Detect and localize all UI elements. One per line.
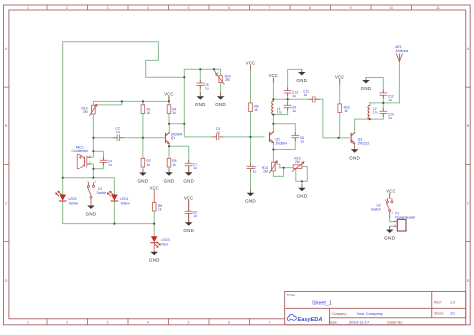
node Q2 base R8 C7 <box>249 136 251 138</box>
capacitor C10 <box>380 108 387 116</box>
svg-text:7: 7 <box>269 6 271 10</box>
svg-text:4: 4 <box>147 6 149 10</box>
resistor R14 body <box>219 76 222 83</box>
resistor R14 wiper arrow <box>214 70 224 85</box>
node LED2 top <box>62 177 64 179</box>
wire mic pin2 down <box>87 164 93 178</box>
wire R4 stems <box>168 101 170 123</box>
border column numbers bottom <box>27 321 271 325</box>
svg-text:7: 7 <box>269 321 271 325</box>
wire led bus bottom <box>63 223 155 225</box>
resistor R5 body <box>167 158 171 167</box>
svg-text:Sheet_1: Sheet_1 <box>312 301 332 307</box>
svg-text:1k: 1k <box>147 163 151 167</box>
svg-text:PowerHeader: PowerHeader <box>395 215 416 219</box>
LED2 <box>56 191 66 201</box>
node staircase-bus junction <box>183 76 185 78</box>
capacitor C11 <box>309 96 319 102</box>
svg-text:1m: 1m <box>373 111 378 115</box>
border ticks right <box>466 87 471 241</box>
svg-text:VCC: VCC <box>269 73 278 78</box>
antenna AE1 <box>396 54 402 62</box>
transistor Q2 <box>270 132 274 143</box>
wire tank2 top gnd link <box>366 78 383 93</box>
wire R5 stems <box>168 146 170 172</box>
wire R16 bottom <box>339 113 341 138</box>
svg-text:VCC: VCC <box>386 188 395 193</box>
vcc stem Q1 <box>168 97 170 102</box>
svg-text:2M: 2M <box>83 110 88 114</box>
border ticks bottom <box>47 319 250 325</box>
LED1 <box>107 191 117 201</box>
wire R10 top stem <box>92 101 94 105</box>
wire C5 stem <box>199 69 201 83</box>
svg-text:VCC: VCC <box>149 185 158 190</box>
node C5 tap <box>199 68 201 70</box>
wire U2 P1 link <box>390 217 394 222</box>
svg-text:LED3: LED3 <box>162 238 170 242</box>
gnd red pin stubs <box>143 70 390 252</box>
svg-text:GND: GND <box>183 228 194 233</box>
wire C4 loop <box>93 151 103 169</box>
svg-text:9: 9 <box>350 6 352 10</box>
wire Q2 emitter vert <box>272 143 274 150</box>
svg-text:2019-11-17: 2019-11-17 <box>349 319 370 324</box>
svg-text:GND: GND <box>245 199 256 204</box>
vcc stem R16 <box>339 79 341 84</box>
svg-text:2: 2 <box>66 321 68 325</box>
svg-text:1m: 1m <box>277 111 282 115</box>
gnd Q3 <box>351 149 359 152</box>
node L1 bottom <box>272 114 274 116</box>
transistor Q3 <box>351 133 355 144</box>
svg-text:6: 6 <box>228 6 230 10</box>
svg-text:11: 11 <box>436 6 440 10</box>
vcc stem U2 <box>389 193 391 198</box>
svg-text:Condenser: Condenser <box>72 149 89 153</box>
border column numbers top <box>27 6 440 10</box>
capacitor C6 <box>185 211 192 213</box>
gnd U1 <box>87 206 95 209</box>
capacitor C7 <box>247 163 254 171</box>
svg-text:TITLE:: TITLE: <box>287 293 296 297</box>
wire emitter bus to C1 <box>169 146 189 163</box>
svg-text:Switch: Switch <box>97 191 107 195</box>
gnd tank2 <box>362 80 370 83</box>
EasyEDA logo <box>287 315 322 323</box>
gnd U2 <box>386 230 394 233</box>
svg-text:1: 1 <box>27 321 29 325</box>
resistor R19 body <box>293 165 302 169</box>
gnd C5 <box>197 96 205 100</box>
wire Q1 collector vert <box>168 124 170 133</box>
microphone MIC1 <box>77 154 90 169</box>
svg-text:Company:: Company: <box>332 312 348 316</box>
svg-text:1k: 1k <box>172 111 176 115</box>
svg-text:VCC: VCC <box>246 61 255 66</box>
svg-text:5: 5 <box>188 321 190 325</box>
svg-text:1u: 1u <box>253 169 257 173</box>
title block box <box>285 292 466 325</box>
svg-text:GND: GND <box>149 257 160 262</box>
svg-text:4: 4 <box>147 321 149 325</box>
capacitor C8 <box>292 132 299 140</box>
header P1 pins <box>394 222 398 227</box>
capacitor C13 <box>284 88 291 96</box>
svg-text:2M: 2M <box>263 170 268 174</box>
node R14 wiper tap <box>213 68 215 70</box>
svg-text:1k: 1k <box>254 108 258 112</box>
svg-text:6: 6 <box>228 321 230 325</box>
node R13-R19 link <box>283 167 285 169</box>
svg-text:C: C <box>467 202 470 206</box>
svg-text:2N3904: 2N3904 <box>276 141 288 145</box>
wire VCC Q1 stem <box>168 97 170 102</box>
svg-text:3: 3 <box>107 6 109 10</box>
wire C11 feed <box>288 99 349 138</box>
gnd LED3 <box>150 252 158 255</box>
svg-text:1u: 1u <box>292 94 296 98</box>
svg-text:1k: 1k <box>147 111 151 115</box>
wire Q3 collector vert <box>354 119 356 133</box>
wire tank vcc drop <box>272 79 274 101</box>
node Q2 emitter <box>272 148 274 150</box>
wire C1 gnd stem <box>188 166 190 172</box>
svg-text:Yellow: Yellow <box>69 202 79 206</box>
node R10 wiper tap <box>121 100 123 102</box>
gnd C1 <box>185 172 193 175</box>
resistor R2 body <box>141 158 145 167</box>
vcc stem R8 <box>250 65 252 70</box>
capacitor C5 <box>197 80 204 88</box>
svg-text:10: 10 <box>389 6 393 10</box>
svg-text:1u: 1u <box>292 109 296 113</box>
svg-text:Switch: Switch <box>371 208 381 212</box>
wire C13-C9 link <box>287 94 289 106</box>
wire Q1 emitter vert <box>168 144 170 147</box>
wire C13 branch <box>273 98 287 100</box>
wire R16 vcc stem <box>339 80 341 104</box>
svg-text:1u: 1u <box>193 166 197 170</box>
wire C10 stems <box>382 103 384 119</box>
svg-text:1u: 1u <box>193 214 197 218</box>
svg-text:1u: 1u <box>205 87 209 91</box>
wire C2 node <box>93 137 164 139</box>
capacitor C4 <box>100 157 107 165</box>
svg-text:2M: 2M <box>295 160 300 164</box>
wire Q2 emitter to R13 <box>272 150 274 163</box>
gnd R19 <box>298 188 306 191</box>
wire mic amp vcc bus <box>93 100 169 102</box>
vcc stems <box>154 65 390 204</box>
wire antenna riser <box>398 62 400 103</box>
wire staircase top-left <box>63 42 185 178</box>
gnd R2 <box>139 173 147 176</box>
node Q2 collector <box>272 123 274 125</box>
wire R6 stems <box>153 211 155 224</box>
capacitor C12 <box>380 90 387 98</box>
svg-text:Sheet:: Sheet: <box>434 312 444 316</box>
svg-text:1u: 1u <box>116 130 120 134</box>
svg-text:GND: GND <box>297 194 308 199</box>
svg-text:Antenna: Antenna <box>396 49 409 53</box>
inductor L1 <box>272 101 274 115</box>
wire C8 loop <box>273 124 295 150</box>
svg-text:1u: 1u <box>216 130 220 134</box>
inductor L2 <box>368 105 370 119</box>
svg-text:VCC: VCC <box>335 75 344 80</box>
wire tank2 bottom bar <box>355 118 384 120</box>
wire L2 top stem <box>369 103 371 105</box>
svg-text:EasyEDA: EasyEDA <box>298 317 323 323</box>
wire Q1 collector to x184 <box>169 123 184 125</box>
svg-text:GND: GND <box>296 78 307 83</box>
svg-text:D: D <box>5 279 8 283</box>
node R1 top <box>142 100 144 102</box>
gnd C13 <box>298 72 306 75</box>
wire R19 loop <box>296 167 308 182</box>
resistor R6 body <box>152 202 156 211</box>
gnd vcc labels <box>86 61 396 263</box>
wire R10 bottom to mic node <box>87 114 93 157</box>
resistor R16 body <box>338 104 342 113</box>
wire LED1 bottom <box>113 202 115 224</box>
node R6 LED3 <box>153 223 155 225</box>
svg-text:1k: 1k <box>158 207 162 211</box>
svg-text:Red: Red <box>162 243 168 247</box>
vcc stem tank1 <box>272 78 274 83</box>
svg-text:Q1: Q1 <box>171 136 176 140</box>
border row letters <box>5 47 470 283</box>
wire C5 gnd stem <box>199 86 201 96</box>
resistor R10 body <box>92 105 96 114</box>
wire R2 stems <box>142 138 144 173</box>
svg-text:1: 1 <box>27 6 29 10</box>
capacitor C2 <box>113 135 123 141</box>
svg-text:LED2: LED2 <box>69 197 77 201</box>
wire R8 bottom <box>250 112 252 137</box>
svg-text:1/1: 1/1 <box>450 312 455 316</box>
wire R10 wiper loop <box>97 101 122 105</box>
svg-text:C: C <box>5 202 8 206</box>
wire LED2 top <box>62 178 64 195</box>
svg-text:2M: 2M <box>225 78 230 82</box>
svg-text:GND: GND <box>215 102 226 107</box>
svg-text:Drawn By:: Drawn By: <box>387 320 403 324</box>
wire C13 top to gnd <box>288 69 302 90</box>
switch U2 <box>386 193 393 217</box>
wire R8 vcc drop <box>250 66 252 103</box>
svg-text:D: D <box>467 279 470 283</box>
svg-text:8: 8 <box>309 6 311 10</box>
wire L1 bottom bar <box>273 114 287 116</box>
node Q1 collector <box>168 123 170 125</box>
node mic pin2 C4 <box>92 168 94 170</box>
svg-text:5: 5 <box>188 6 190 10</box>
svg-text:REV:: REV: <box>434 300 442 304</box>
wire C9 bottom <box>287 108 289 114</box>
resistor R13 wiper arrow <box>270 161 278 173</box>
border ticks left <box>4 87 9 241</box>
svg-text:GND: GND <box>164 178 175 183</box>
svg-text:Yellow: Yellow <box>120 202 130 206</box>
wire C7 stem <box>250 137 252 193</box>
wire tank2 mid bar <box>370 102 400 104</box>
resistor R13 body <box>272 162 276 171</box>
svg-text:1k: 1k <box>344 109 348 113</box>
wire P1 pin2 to gnd <box>390 226 394 229</box>
resistor R19 wiper arrow <box>292 162 304 171</box>
svg-text:1u: 1u <box>304 93 308 97</box>
svg-text:1u: 1u <box>388 98 392 102</box>
svg-text:1u: 1u <box>300 140 304 144</box>
wire R13 to R19 <box>280 167 293 169</box>
resistor R8 body <box>249 103 253 112</box>
wire led bus top <box>63 178 115 195</box>
node Q3 base R16 <box>338 137 340 139</box>
svg-text:GND: GND <box>349 155 360 160</box>
svg-text:1u: 1u <box>388 116 392 120</box>
svg-text:1u: 1u <box>108 163 112 167</box>
wire bus to C5/R14 <box>184 69 220 77</box>
wire R13 loop <box>273 164 283 176</box>
svg-text:VCC: VCC <box>164 92 173 97</box>
capacitor C9 <box>284 102 291 110</box>
node VCC R4 top <box>168 100 170 102</box>
transistor Q1 <box>166 133 170 144</box>
node switch top <box>92 177 94 179</box>
node C13-C9 link <box>287 98 289 100</box>
svg-text:LED1: LED1 <box>120 197 128 201</box>
border ticks top <box>47 5 412 10</box>
gnd R14 <box>217 96 225 99</box>
resistor R4 body <box>167 105 171 114</box>
vcc stem R6 <box>153 190 155 202</box>
LED3 <box>151 236 160 247</box>
gnd C7 <box>247 193 255 196</box>
gnd C6 <box>185 222 193 225</box>
wire long vertical x184 <box>184 77 216 137</box>
svg-text:GND: GND <box>195 102 206 107</box>
gnd R5 <box>165 172 173 175</box>
svg-text:VCC: VCC <box>184 196 193 201</box>
resistor R1 body <box>141 105 145 114</box>
node C12-tank link <box>382 102 384 104</box>
wire Q2 collector vert <box>272 124 274 132</box>
svg-text:2: 2 <box>66 6 68 10</box>
node mic pin1 C4 <box>92 150 94 152</box>
wire L1 bottom to Q2 <box>272 115 274 124</box>
capacitor C3 <box>213 134 223 140</box>
svg-text:GND: GND <box>361 86 372 91</box>
svg-text:GND: GND <box>138 178 149 183</box>
svg-text:Your Company: Your Company <box>357 311 383 316</box>
vcc stem C6 <box>188 200 190 205</box>
wire Q2 base wire <box>221 136 265 138</box>
svg-text:1.0: 1.0 <box>450 300 455 304</box>
node VCC tank tap <box>272 98 274 100</box>
resistor R10 wiper arrow <box>90 104 97 115</box>
capacitor C1 <box>185 160 192 168</box>
wire R1 stems <box>142 101 144 137</box>
node Q1 emitter <box>168 145 170 147</box>
switch U1 <box>88 183 95 206</box>
node mic audio <box>92 137 94 139</box>
node L2 bottom <box>369 118 371 120</box>
wire R14 gnd stem <box>220 83 222 96</box>
node collector feed <box>183 123 185 125</box>
svg-text:2N2222: 2N2222 <box>358 142 370 146</box>
node R1-R2 divider <box>142 137 144 139</box>
svg-text:GND: GND <box>183 178 194 183</box>
svg-text:GND: GND <box>384 235 396 241</box>
svg-text:3: 3 <box>107 321 109 325</box>
node LED1 bottom <box>113 223 115 225</box>
wire C12 bottom <box>382 96 384 103</box>
wire LED3 stems <box>153 224 155 237</box>
wire LED2 bottom <box>62 202 64 224</box>
svg-text:Date:: Date: <box>330 320 338 324</box>
wire R19 gnd stem <box>301 181 303 188</box>
header P1 box <box>397 219 406 231</box>
svg-text:GND: GND <box>86 211 97 216</box>
svg-text:1k: 1k <box>172 163 176 167</box>
node R19 gnd tap <box>301 180 303 182</box>
